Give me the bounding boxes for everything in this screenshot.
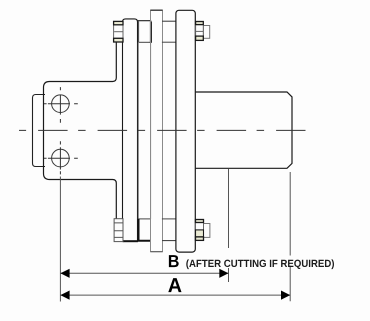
bolt hole circle lower: [52, 149, 70, 167]
plate P4 bottom edge: [162, 240, 176, 242]
plate P2 lower box: [139, 219, 151, 241]
bolt nut bottom-right with thread end: [196, 220, 210, 241]
dimension line B: [60, 272, 228, 274]
plate P2 top edge: [138, 20, 151, 22]
plate P2 side lines: [138, 42, 150, 219]
plate P3 top and bottom edges: [151, 9, 163, 11]
extension line B right: [228, 169, 230, 283]
plate P4 lower line: [162, 218, 176, 220]
plate P3 tall center plate: [151, 10, 163, 252]
left flange outline: [44, 42, 117, 218]
plate P4 top edge: [162, 20, 176, 22]
right hub shaft: [196, 92, 292, 168]
bolt hole circle upper: [52, 95, 70, 113]
center mark vertical through circles: [59, 87, 61, 174]
bolt head bottom-left: [114, 219, 123, 242]
dimension A right arrowhead: [281, 291, 290, 300]
plate P1 left adapter plate: [123, 19, 138, 241]
dimension B left arrowhead: [60, 269, 69, 278]
dimension B right arrowhead: [219, 269, 228, 278]
bolt nut top-right with thread end: [196, 22, 210, 41]
plate P1 thick bottom edge: [123, 240, 138, 242]
plate P4 upper line: [162, 41, 176, 43]
dimension line A: [60, 294, 290, 296]
main horizontal centerline: [19, 129, 306, 131]
center mark lower circle horizontal: [44, 157, 78, 159]
label A: [168, 278, 181, 292]
label B: [169, 255, 179, 267]
center mark upper circle horizontal: [44, 103, 78, 105]
extension line left: [59, 177, 61, 302]
plate P5 right flange plate: [176, 10, 195, 252]
label B note: [186, 259, 334, 269]
extension line A right: [289, 172, 291, 301]
plate P2 upper box: [139, 21, 151, 43]
plate P2 upper box thick right edge: [150, 22, 152, 43]
dimension A left arrowhead: [60, 291, 69, 300]
plate P2 lower box thick left and bottom edges: [139, 219, 151, 241]
left hub barrel: [33, 95, 46, 167]
bolt head top-left: [114, 21, 123, 42]
